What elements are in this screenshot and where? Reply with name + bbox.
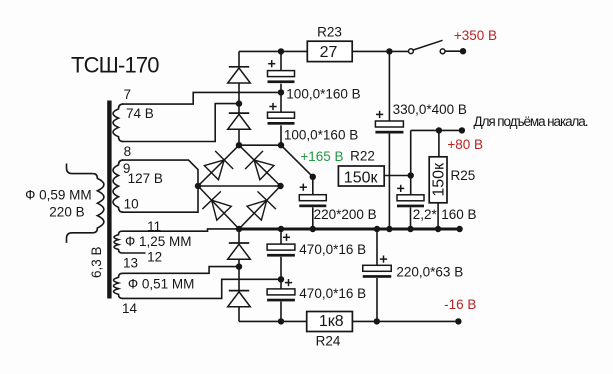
svg-text:470,0*16 В: 470,0*16 В: [299, 286, 366, 301]
svg-text:1к8: 1к8: [319, 313, 344, 330]
svg-text:220 В: 220 В: [49, 205, 84, 220]
svg-text:+80 В: +80 В: [447, 137, 483, 152]
svg-text:R25: R25: [451, 168, 476, 183]
svg-text:R22: R22: [350, 149, 375, 164]
svg-text:220*200 В: 220*200 В: [314, 207, 377, 222]
svg-text:100,0*160 В: 100,0*160 В: [284, 127, 358, 142]
svg-text:8: 8: [124, 144, 132, 159]
svg-text:13: 13: [123, 255, 138, 270]
svg-text:220,0*63 В: 220,0*63 В: [396, 264, 463, 279]
svg-text:Ф 0,51 ММ: Ф 0,51 ММ: [128, 277, 195, 292]
svg-text:6,3 В: 6,3 В: [89, 246, 104, 278]
svg-text:R24: R24: [316, 334, 341, 349]
svg-text:11: 11: [147, 219, 161, 234]
svg-text:127 В: 127 В: [128, 171, 163, 186]
svg-text:74 В: 74 В: [126, 106, 154, 121]
svg-text:14: 14: [122, 301, 138, 316]
svg-text:150к: 150к: [344, 170, 379, 187]
svg-text:+350 В: +350 В: [454, 28, 497, 43]
svg-text:470,0*16 В: 470,0*16 В: [299, 242, 366, 257]
svg-text:100,0*160 В: 100,0*160 В: [286, 87, 360, 102]
svg-text:330,0*400 В: 330,0*400 В: [393, 102, 467, 117]
svg-text:Ф 1,25 ММ: Ф 1,25 ММ: [125, 234, 192, 249]
svg-text:2,2*: 2,2*: [413, 207, 438, 222]
svg-text:12: 12: [147, 250, 162, 265]
svg-text:7: 7: [124, 87, 132, 102]
svg-text:150к: 150к: [431, 162, 448, 197]
svg-text:27: 27: [320, 44, 338, 61]
svg-text:+165 В: +165 В: [300, 149, 343, 164]
svg-text:ТСШ-170: ТСШ-170: [71, 53, 160, 78]
svg-text:-16 В: -16 В: [444, 297, 476, 312]
svg-text:160 В: 160 В: [441, 207, 476, 222]
svg-text:10: 10: [124, 197, 139, 212]
svg-text:Для подъёма накала.: Для подъёма накала.: [474, 114, 589, 129]
svg-text:R23: R23: [317, 25, 342, 40]
svg-text:Ф 0,59 ММ: Ф 0,59 ММ: [25, 188, 92, 203]
